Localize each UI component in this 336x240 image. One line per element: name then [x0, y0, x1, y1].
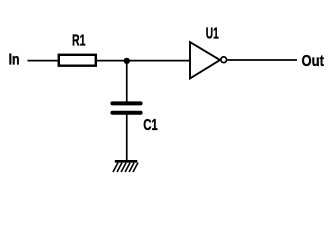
inverter U1 triangle	[190, 42, 222, 78]
ground hatch 6	[133, 163, 138, 172]
svg-text:R1: R1	[72, 33, 86, 50]
ground hatch 3	[121, 163, 126, 172]
resistor R1	[59, 55, 96, 66]
svg-text:U1: U1	[206, 25, 219, 42]
wire from C1 to ground	[126, 115, 128, 162]
svg-text:In: In	[9, 52, 20, 69]
wire input from In to R1	[28, 60, 59, 62]
ground hatch 1	[113, 163, 118, 172]
wire from R1 to inverter input	[97, 60, 191, 62]
ground hatch 5	[129, 163, 134, 172]
svg-text:Out: Out	[302, 53, 325, 70]
ground bar	[115, 160, 138, 163]
inverter U1 output bubble	[221, 57, 227, 63]
junction node dot	[124, 58, 130, 64]
wire output from U1 to Out	[227, 59, 297, 61]
capacitor C1 bottom plate	[112, 111, 140, 115]
capacitor C1 top plate	[112, 101, 140, 105]
svg-text:C1: C1	[143, 117, 158, 134]
wire from junction down to C1	[126, 61, 128, 102]
ground hatch 2	[117, 163, 122, 172]
ground hatch 4	[125, 163, 130, 172]
